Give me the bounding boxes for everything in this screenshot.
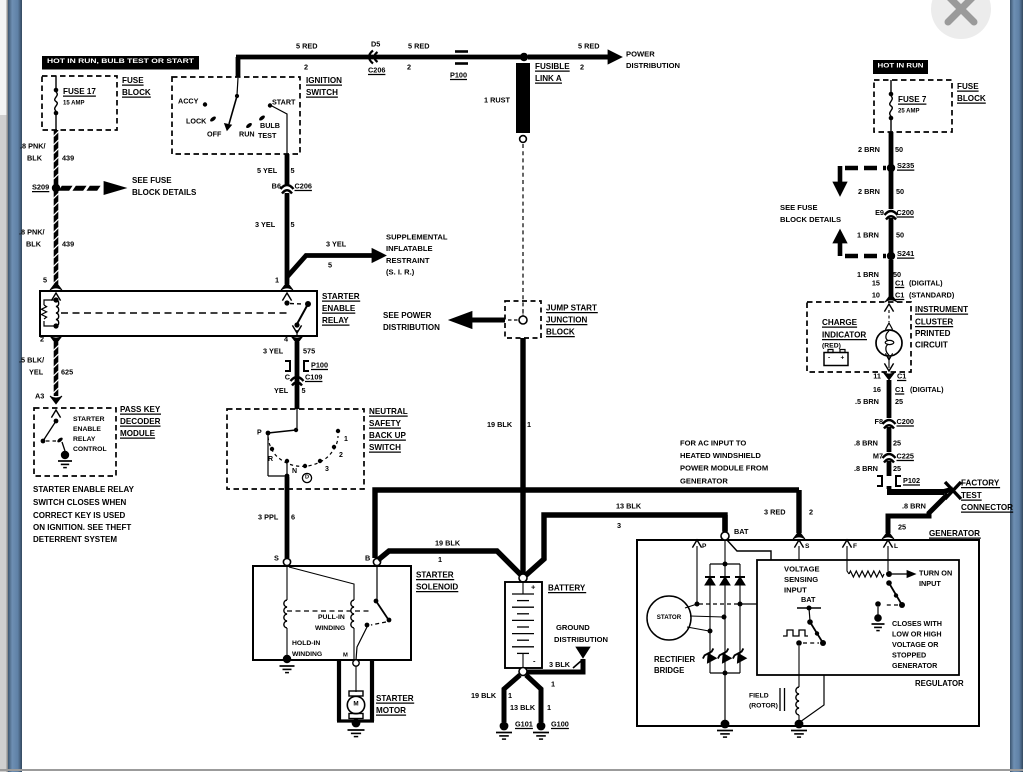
wire 19 BLK solenoid B to battery positive — [378, 551, 521, 575]
wire 3 YEL C206 to relay pin1 — [285, 193, 290, 284]
connector F8 C200 — [883, 420, 896, 424]
wire 5 RED horizontal to fusible link junction — [236, 55, 524, 60]
svg-text:BLOCK DETAILS: BLOCK DETAILS — [780, 215, 841, 224]
ignition switch internals: feed line and rotor blade — [237, 78, 238, 95]
svg-text:3 YEL: 3 YEL — [326, 239, 347, 248]
wire F terminal to resistor — [847, 546, 849, 574]
svg-text:5: 5 — [302, 386, 306, 395]
svg-text:-: - — [828, 355, 830, 362]
svg-text:S235: S235 — [897, 161, 914, 170]
svg-text:5: 5 — [43, 275, 47, 284]
svg-text:S: S — [805, 543, 810, 550]
svg-text:HOT IN RUN: HOT IN RUN — [878, 62, 924, 69]
arrow SEE POWER DISTRIBUTION — [449, 312, 472, 329]
connector E9 C200 — [885, 211, 898, 215]
svg-text:INPUT: INPUT — [919, 579, 941, 588]
svg-text:25: 25 — [893, 464, 901, 473]
svg-text:1: 1 — [527, 420, 531, 429]
svg-text:SWITCH CLOSES WHEN: SWITCH CLOSES WHEN — [33, 498, 127, 507]
svg-text:C206: C206 — [295, 181, 312, 190]
junction node at fusible link — [520, 53, 528, 61]
svg-text:5: 5 — [328, 260, 332, 269]
pass key decoder module dashed box — [34, 408, 116, 476]
svg-text:SWITCH: SWITCH — [369, 443, 401, 452]
svg-text:B6: B6 — [272, 181, 281, 190]
jump start stud — [519, 316, 527, 324]
regulator switch ground — [874, 614, 882, 622]
stator phase B — [690, 616, 723, 617]
svg-text:P100: P100 — [311, 360, 328, 369]
factory test connector X symbol — [945, 482, 961, 499]
connector D5 C206 on 5 RED wire — [369, 51, 373, 64]
svg-text:STARTER: STARTER — [416, 570, 454, 579]
svg-text:INPUT: INPUT — [784, 586, 807, 595]
terminal S crow — [794, 540, 803, 548]
svg-text:POWER: POWER — [626, 50, 655, 59]
svg-text:DISTRIBUTION: DISTRIBUTION — [383, 323, 440, 332]
svg-text:19 BLK: 19 BLK — [471, 691, 497, 700]
svg-text:15: 15 — [872, 278, 880, 287]
svg-text:C225: C225 — [897, 451, 914, 460]
svg-text:WINDING: WINDING — [292, 651, 322, 658]
in-line connector P100 on 5 RED wire — [455, 50, 468, 53]
wire .8 PNK/BLK S209 to relay pin5 — [54, 190, 59, 284]
svg-text:(STANDARD): (STANDARD) — [909, 290, 955, 299]
field rotor coil — [796, 687, 799, 715]
svg-text:19 BLK: 19 BLK — [487, 420, 513, 429]
charge indicator bulb — [876, 330, 902, 356]
svg-text:LINK A: LINK A — [535, 74, 562, 83]
svg-text:RELAY: RELAY — [73, 436, 96, 443]
wire .8 BRN C225 to P102 — [887, 461, 892, 476]
svg-text:VOLTAGE OR: VOLTAGE OR — [892, 640, 939, 649]
wire L terminal to junction — [887, 546, 889, 571]
svg-text:439: 439 — [62, 153, 74, 162]
svg-text:SEE POWER: SEE POWER — [383, 311, 432, 320]
wire 5 YEL ignition to C206 — [285, 154, 290, 184]
svg-text:START: START — [272, 97, 296, 106]
svg-text:S241: S241 — [897, 249, 914, 258]
svg-text:439: 439 — [62, 239, 74, 248]
svg-text:FACTORY: FACTORY — [961, 478, 1000, 487]
svg-text:BAT: BAT — [734, 527, 749, 536]
svg-text:1: 1 — [547, 703, 551, 712]
contact 2 — [332, 445, 336, 449]
wire .8 BRN branch to generator L terminal — [930, 495, 947, 513]
starter solenoid box — [253, 566, 411, 660]
svg-text:SAFETY: SAFETY — [369, 419, 402, 428]
svg-text:BULB: BULB — [260, 121, 280, 130]
contact N — [285, 459, 289, 463]
dashed lead fusible link to jump start block — [522, 144, 524, 316]
svg-text:RESTRAINT: RESTRAINT — [386, 256, 430, 265]
svg-text:RUN: RUN — [239, 129, 255, 138]
svg-text:5: 5 — [291, 166, 295, 175]
svg-text:GROUND: GROUND — [556, 623, 590, 632]
splice S241 — [887, 252, 895, 260]
contact D with circle — [303, 464, 307, 468]
svg-text:D5: D5 — [371, 39, 380, 48]
svg-text:25: 25 — [893, 438, 901, 447]
svg-text:A3: A3 — [35, 391, 44, 400]
svg-text:.5 BLK/: .5 BLK/ — [19, 355, 44, 364]
terminal BAT — [721, 532, 729, 540]
neutral safety back up switch dashed box — [227, 409, 364, 489]
svg-text:1: 1 — [438, 555, 442, 564]
svg-text:FUSIBLE: FUSIBLE — [535, 62, 570, 71]
svg-text:2: 2 — [580, 62, 584, 71]
svg-text:ACCY: ACCY — [178, 96, 199, 105]
pull-in winding — [351, 600, 354, 628]
wire 3 BLK to ground distribution — [527, 659, 583, 672]
svg-text:STARTER: STARTER — [73, 416, 105, 423]
svg-text:RECTIFIER: RECTIFIER — [654, 655, 696, 664]
regulator BAT switch — [809, 608, 810, 621]
svg-text:VOLTAGE: VOLTAGE — [784, 565, 820, 574]
svg-text:.8 PNK/: .8 PNK/ — [19, 227, 45, 236]
svg-text:+: + — [841, 355, 845, 362]
svg-text:MODULE: MODULE — [120, 429, 156, 438]
ground G101 — [500, 722, 509, 731]
rectifier top bus — [723, 562, 728, 567]
svg-text:3: 3 — [325, 466, 329, 473]
branch arrow up from S241 — [833, 230, 847, 244]
svg-text:INSTRUMENT: INSTRUMENT — [915, 305, 968, 314]
svg-text:YEL: YEL — [29, 367, 44, 376]
svg-text:19 BLK: 19 BLK — [435, 538, 461, 547]
svg-text:CIRCUIT: CIRCUIT — [915, 340, 948, 349]
svg-text:LOW OR HIGH: LOW OR HIGH — [892, 629, 942, 638]
fusible link A — [516, 63, 530, 133]
svg-text:M7: M7 — [873, 451, 883, 460]
field winding return to regulator — [800, 675, 824, 722]
svg-text:G101: G101 — [515, 719, 533, 728]
right blue window border bar — [1010, 0, 1023, 772]
in-line connector P100 brackets — [285, 361, 290, 371]
svg-text:DETERRENT SYSTEM: DETERRENT SYSTEM — [33, 535, 117, 544]
svg-text:2: 2 — [304, 62, 308, 71]
contact 3 — [318, 459, 322, 463]
svg-text:575: 575 — [303, 346, 315, 355]
svg-text:STATOR: STATOR — [657, 614, 682, 621]
svg-text:D: D — [305, 475, 309, 481]
svg-text:M: M — [343, 653, 348, 659]
svg-text:LOCK: LOCK — [186, 116, 207, 125]
terminal S of solenoid — [283, 558, 290, 565]
svg-text:25 AMP: 25 AMP — [898, 108, 919, 114]
turn on input junction — [886, 571, 892, 577]
svg-text:1: 1 — [508, 691, 512, 700]
rectifier bottom bus — [710, 672, 740, 674]
svg-text:FOR AC INPUT TO: FOR AC INPUT TO — [680, 439, 746, 448]
svg-text:C206: C206 — [368, 65, 385, 74]
rectifier feed from BAT — [724, 540, 726, 564]
terminal bell at S — [793, 531, 805, 539]
svg-text:C1: C1 — [895, 290, 904, 299]
wire 19 BLK battery to G101 — [504, 675, 520, 722]
svg-text:TURN ON: TURN ON — [919, 568, 952, 577]
svg-text:25: 25 — [898, 522, 906, 531]
wire BAT to regulator — [727, 540, 771, 560]
contact arc dashed — [268, 436, 338, 466]
svg-text:.8 BRN: .8 BRN — [854, 438, 878, 447]
svg-text:CONNECTOR: CONNECTOR — [961, 503, 1013, 512]
regulator resistor — [849, 571, 884, 577]
svg-text:50: 50 — [896, 230, 904, 239]
generator box — [637, 540, 979, 726]
svg-text:L: L — [894, 543, 898, 550]
hatched arrow SEE FUSE BLOCK DETAILS — [59, 186, 72, 191]
svg-text:REGULATOR: REGULATOR — [915, 679, 964, 688]
svg-text:OFF: OFF — [207, 129, 222, 138]
svg-text:50: 50 — [895, 145, 903, 154]
fuse block 2 dashed box — [874, 80, 952, 132]
svg-text:(DIGITAL): (DIGITAL) — [910, 385, 944, 394]
ignition switch dashed box — [172, 77, 300, 154]
svg-text:3 PPL: 3 PPL — [258, 512, 279, 521]
svg-text:16: 16 — [873, 385, 881, 394]
terminal B of solenoid — [373, 558, 380, 565]
starter motor — [349, 691, 363, 696]
svg-text:3 YEL: 3 YEL — [263, 346, 284, 355]
svg-text:2 BRN: 2 BRN — [858, 145, 880, 154]
charge indicator bulb lead upper — [884, 304, 893, 312]
svg-text:JUNCTION: JUNCTION — [546, 315, 588, 324]
field ground — [795, 720, 804, 729]
terminal L crow — [883, 540, 892, 548]
battery plates — [522, 582, 524, 594]
svg-text:CONTROL: CONTROL — [73, 446, 107, 453]
svg-text:P100: P100 — [450, 70, 467, 79]
solenoid switch from B — [376, 566, 378, 600]
wire 13 BLK battery to generator BAT — [525, 515, 725, 576]
wire 5 RED ignition feed riser — [236, 57, 241, 77]
svg-text:YEL: YEL — [274, 386, 289, 395]
connector B6 C206 — [281, 185, 294, 189]
svg-text:3: 3 — [617, 521, 621, 530]
svg-text:HOT IN RUN, BULB TEST OR START: HOT IN RUN, BULB TEST OR START — [47, 58, 195, 65]
wire .8 PNK/BLK fuse17 to S209 — [54, 130, 59, 186]
svg-text:F8: F8 — [874, 417, 883, 426]
contact R — [270, 447, 274, 451]
relay coil with parallel resistor — [51, 293, 60, 301]
regulator L switch — [886, 580, 892, 586]
bottom window edge line — [0, 769, 1023, 771]
solenoid ground — [283, 655, 291, 663]
svg-text:N: N — [292, 468, 297, 475]
field drive contact — [796, 640, 802, 646]
ground inside pass key module — [61, 451, 69, 459]
svg-text:B: B — [365, 553, 370, 562]
svg-text:STARTER: STARTER — [376, 694, 414, 703]
svg-text:SWITCH: SWITCH — [306, 88, 338, 97]
svg-text:BLOCK: BLOCK — [122, 88, 151, 97]
svg-text:FIELD: FIELD — [749, 693, 769, 700]
fuse F7 symbol — [890, 80, 892, 93]
rectifier zener diodes bottom — [701, 648, 718, 663]
svg-text:BLK: BLK — [26, 239, 42, 248]
generator ground — [721, 720, 730, 729]
svg-text:3 RED: 3 RED — [764, 507, 786, 516]
svg-text:BAT: BAT — [801, 595, 816, 604]
svg-text:C1: C1 — [895, 385, 904, 394]
svg-text:S209: S209 — [32, 182, 49, 191]
rectifier columns — [709, 564, 711, 673]
svg-text:+: + — [531, 583, 536, 592]
terminal F crow — [842, 540, 851, 548]
svg-text:C200: C200 — [897, 417, 914, 426]
svg-text:BATTERY: BATTERY — [548, 583, 586, 592]
svg-text:10: 10 — [872, 290, 880, 299]
wire 13 BLK battery to G100 — [526, 675, 541, 722]
fuse block 1 dashed box — [42, 76, 117, 130]
svg-text:P102: P102 — [903, 476, 920, 485]
battery positive terminal — [519, 574, 527, 582]
svg-text:INDICATOR: INDICATOR — [822, 330, 866, 339]
svg-text:C: C — [285, 372, 291, 381]
svg-text:DISTRIBUTION: DISTRIBUTION — [626, 61, 680, 70]
svg-text:625: 625 — [61, 367, 73, 376]
pin 11 C1 — [883, 372, 895, 380]
svg-text:11: 11 — [873, 371, 881, 380]
svg-text:SUPPLEMENTAL: SUPPLEMENTAL — [386, 233, 448, 242]
svg-text:IGNITION: IGNITION — [306, 76, 342, 85]
generator ground lead — [724, 673, 726, 722]
svg-text:PRINTED: PRINTED — [915, 329, 951, 338]
svg-text:2 BRN: 2 BRN — [858, 187, 880, 196]
svg-text:RELAY: RELAY — [322, 316, 349, 325]
svg-text:NEUTRAL: NEUTRAL — [369, 407, 408, 416]
svg-text:CHARGE: CHARGE — [822, 318, 858, 327]
arrow TURN ON INPUT — [892, 573, 907, 575]
svg-text:5 RED: 5 RED — [296, 41, 318, 50]
svg-text:PASS KEY: PASS KEY — [120, 405, 161, 414]
fuse F17 symbol — [55, 76, 57, 89]
svg-text:5 YEL: 5 YEL — [257, 166, 278, 175]
branch arrow down to fuse block details — [845, 166, 886, 171]
svg-text:PULL-IN: PULL-IN — [318, 614, 345, 621]
svg-text:G100: G100 — [551, 719, 569, 728]
relay switch contacts — [282, 293, 291, 301]
close button circle — [931, 0, 991, 39]
svg-text:C109: C109 — [305, 372, 322, 381]
in-line connector P102 brackets — [877, 476, 882, 486]
svg-text:TEST: TEST — [258, 131, 277, 140]
field rotor lead — [798, 646, 800, 687]
svg-text:R: R — [268, 456, 273, 463]
wire 2 BRN S235 to C200 — [889, 171, 894, 209]
svg-text:2: 2 — [339, 452, 343, 459]
solenoid dashed actuation line — [287, 610, 370, 612]
wire S terminal into regulator — [798, 546, 800, 560]
terminal bell into instrument cluster — [885, 294, 897, 302]
svg-text:DECODER: DECODER — [120, 417, 161, 426]
svg-text:1 BRN: 1 BRN — [857, 230, 879, 239]
svg-text:3 BLK: 3 BLK — [549, 660, 571, 669]
svg-text:BLK: BLK — [27, 153, 43, 162]
svg-text:2: 2 — [407, 62, 411, 71]
svg-text:2: 2 — [809, 507, 813, 516]
svg-text:FUSE: FUSE — [122, 76, 144, 85]
svg-text:ENABLE: ENABLE — [322, 304, 356, 313]
svg-text:1: 1 — [275, 275, 279, 284]
svg-text:.8 PNK/: .8 PNK/ — [20, 141, 46, 150]
svg-text:STARTER ENABLE RELAY: STARTER ENABLE RELAY — [33, 485, 135, 494]
svg-text:C1: C1 — [897, 371, 906, 380]
svg-text:JUMP START: JUMP START — [546, 303, 597, 312]
svg-text:BLOCK DETAILS: BLOCK DETAILS — [132, 188, 197, 197]
svg-text:FUSE 17: FUSE 17 — [63, 87, 96, 96]
svg-text:ON IGNITION. SEE THEFT: ON IGNITION. SEE THEFT — [33, 523, 131, 532]
jump start junction block dashed box — [505, 301, 541, 338]
wire 3 PPL neutral switch to solenoid S — [285, 477, 290, 558]
svg-text:13 BLK: 13 BLK — [510, 703, 536, 712]
svg-text:C200: C200 — [897, 208, 914, 217]
svg-text:HEATED WINDSHIELD: HEATED WINDSHIELD — [680, 451, 761, 460]
svg-text:CLOSES WITH: CLOSES WITH — [892, 619, 942, 628]
svg-text:P: P — [257, 430, 262, 437]
svg-text:6: 6 — [291, 512, 295, 521]
svg-text:HOLD-IN: HOLD-IN — [292, 640, 320, 647]
wire 3 RED drop to generator S terminal — [796, 490, 801, 533]
svg-text:E9: E9 — [875, 208, 884, 217]
terminal P — [692, 540, 701, 548]
svg-text:5 RED: 5 RED — [578, 41, 600, 50]
svg-text:BLOCK: BLOCK — [957, 94, 986, 103]
wire 3 YEL relay pin4 to P100 — [295, 342, 300, 409]
svg-text:TEST: TEST — [961, 491, 982, 500]
connector C109 — [291, 377, 304, 381]
wire START contact to switch output — [270, 105, 287, 154]
left scrollbar track — [0, 0, 7, 772]
svg-text:5: 5 — [291, 220, 295, 229]
branch wire 3 YEL to SIR — [287, 256, 372, 278]
svg-text:SEE FUSE: SEE FUSE — [780, 203, 818, 212]
wire .8 BRN C200 to C225 — [887, 427, 892, 452]
svg-text:1 RUST: 1 RUST — [484, 95, 510, 104]
svg-text:DISTRIBUTION: DISTRIBUTION — [554, 635, 608, 644]
svg-text:P: P — [702, 543, 707, 550]
svg-text:SOLENOID: SOLENOID — [416, 582, 458, 591]
connector M7 C225 — [883, 454, 896, 458]
banner HOT IN RUN — [873, 60, 928, 74]
motor ground — [352, 719, 361, 728]
fusible link terminal circle — [520, 136, 527, 143]
svg-text:C1: C1 — [895, 278, 904, 287]
close button X icon — [948, 0, 974, 22]
svg-text:SEE FUSE: SEE FUSE — [132, 176, 172, 185]
wire 2 BRN fuse7 to S235 — [889, 132, 894, 165]
solenoid internal wiring from S — [286, 566, 288, 600]
svg-text:(DIGITAL): (DIGITAL) — [909, 278, 943, 287]
svg-text:STARTER: STARTER — [322, 292, 360, 301]
wire 1 BRN S241 to instrument cluster — [889, 260, 894, 297]
charge indicator bulb lead lower — [885, 353, 892, 360]
stator phase A to P and rectifier — [695, 602, 700, 607]
svg-text:M: M — [353, 701, 358, 708]
svg-text:1: 1 — [551, 679, 555, 688]
rectifier diodes top — [705, 576, 715, 578]
svg-text:MOTOR: MOTOR — [376, 706, 406, 715]
instrument cluster dashed box — [807, 302, 911, 372]
svg-text:(S. I. R.): (S. I. R.) — [386, 268, 415, 277]
svg-text:ENABLE: ENABLE — [73, 426, 101, 433]
wire .8 BRN P102 to factory test connector — [887, 486, 892, 489]
starter motor rails — [337, 660, 341, 721]
svg-text:FUSE 7: FUSE 7 — [898, 95, 927, 104]
svg-text:(RED): (RED) — [822, 343, 841, 350]
svg-text:STOPPED: STOPPED — [892, 650, 926, 659]
